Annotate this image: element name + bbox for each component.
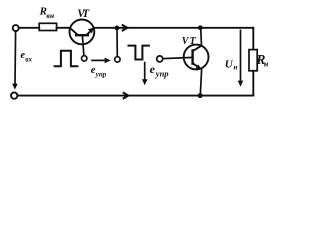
control terminal circle (right of eупр1 source) bbox=[115, 57, 120, 62]
svg-text:VT: VT bbox=[182, 36, 197, 47]
transistor VT2 (shunt chopper) bbox=[184, 28, 209, 95]
svg-text:вх: вх bbox=[25, 55, 32, 63]
wire resistor to VT1 bbox=[57, 27, 70, 29]
current arrow on top rail bbox=[122, 25, 127, 31]
arrow Uн (output voltage, pointing down) bbox=[240, 30, 242, 81]
pulse waveform symbol 2 (negative pulse) bbox=[129, 46, 149, 60]
bottom terminal circle (left) bbox=[11, 92, 17, 98]
current arrow on bottom rail bbox=[123, 92, 128, 98]
right vertical wire top (corner to Rн) bbox=[252, 28, 254, 50]
svg-text:VT: VT bbox=[77, 8, 90, 20]
node: junction dot VT2 emitter on bottom rail bbox=[198, 93, 203, 98]
right vertical wire bottom (Rн to bottom rail) bbox=[252, 71, 254, 96]
svg-text:н: н bbox=[264, 60, 269, 69]
transistor VT1 (series chopper) bbox=[70, 20, 95, 56]
svg-text:н: н bbox=[233, 62, 237, 71]
wire terminal to VT2 base bbox=[163, 57, 193, 58]
node: junction dot VT2 collector on top rail bbox=[198, 25, 203, 30]
control terminal circle (left of VT2 base wire) bbox=[157, 56, 163, 62]
arrow eвх (pointing down) bbox=[12, 84, 18, 90]
svg-text:e: e bbox=[150, 62, 156, 76]
wire junction down to control terminal bbox=[116, 30, 118, 57]
node: junction dot on top rail for control return bbox=[115, 26, 120, 31]
bottom rail wire bbox=[18, 95, 254, 97]
resistor Rн (load) bbox=[249, 50, 257, 71]
svg-text:упр: упр bbox=[155, 69, 169, 79]
resistor Rвн bbox=[39, 23, 56, 30]
wire eвх source vertical (left column) bbox=[14, 31, 17, 84]
wire input terminal to resistor bbox=[19, 27, 39, 29]
input terminal (top left circle) bbox=[13, 25, 19, 31]
svg-text:вн: вн bbox=[46, 11, 54, 20]
arrow eупр1 (pointing right) bbox=[92, 59, 106, 61]
arrow eупр2 (pointing down) bbox=[144, 63, 146, 81]
pulse waveform symbol 1 (positive pulse) bbox=[55, 51, 78, 66]
wire VT1 to right corner (top rail) bbox=[94, 27, 253, 29]
VT1 base terminal circle bbox=[82, 56, 87, 61]
svg-text:упр: упр bbox=[95, 71, 107, 79]
